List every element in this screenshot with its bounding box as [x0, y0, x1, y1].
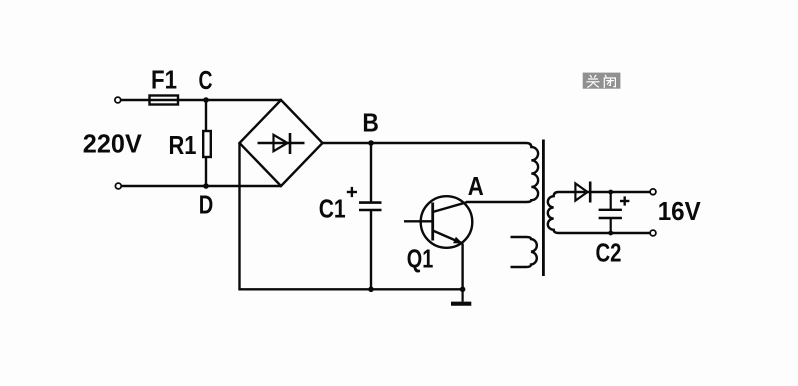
svg-text:A: A — [468, 171, 484, 201]
svg-text:R1: R1 — [169, 130, 197, 160]
svg-text:220V: 220V — [83, 129, 143, 159]
svg-text:Q1: Q1 — [407, 244, 434, 274]
svg-text:C: C — [199, 65, 213, 95]
svg-text:C2: C2 — [596, 237, 622, 267]
svg-text:16V: 16V — [658, 196, 702, 226]
svg-text:F1: F1 — [151, 64, 177, 94]
svg-text:C1: C1 — [319, 193, 346, 223]
svg-text:B: B — [362, 107, 379, 137]
svg-text:D: D — [199, 189, 214, 219]
